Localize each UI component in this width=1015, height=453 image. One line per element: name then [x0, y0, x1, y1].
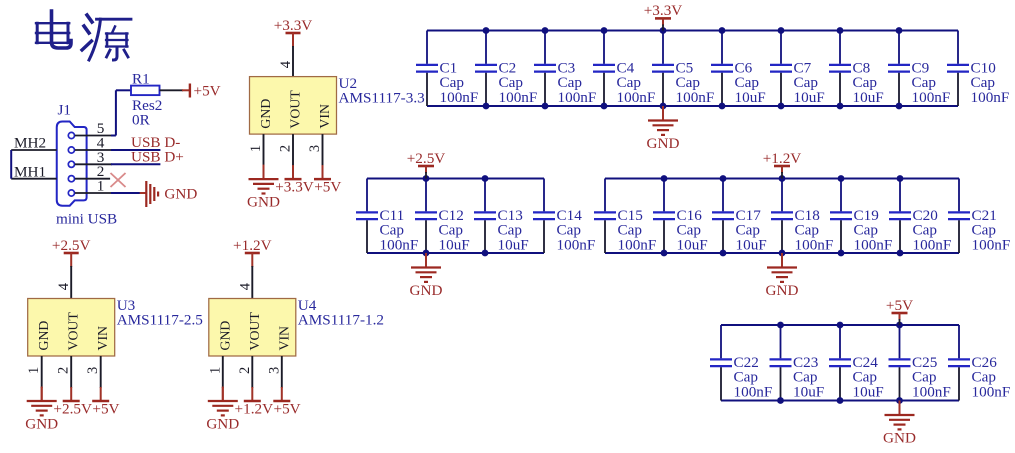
svg-text:100nF: 100nF: [912, 383, 951, 400]
wire +2.5V top rail: [367, 178, 544, 180]
svg-text:10uF: 10uF: [439, 236, 470, 253]
junction bottom rail at C8: [837, 103, 844, 110]
capacitor C5: [652, 31, 714, 107]
svg-text:100nF: 100nF: [971, 89, 1010, 106]
svg-text:4: 4: [278, 60, 294, 68]
svg-text:+1.2V: +1.2V: [235, 400, 274, 417]
svg-text:3: 3: [85, 367, 101, 374]
junction bottom rail at C17: [720, 250, 727, 257]
svg-text:AMS1117-3.3: AMS1117-3.3: [339, 89, 425, 106]
ground GND: [883, 401, 916, 447]
net label USB D-: [131, 134, 180, 151]
wire R1 to +5V: [160, 89, 184, 91]
svg-text:GND: GND: [25, 416, 58, 433]
junction top rail at C20: [897, 175, 904, 182]
junction bottom rail at C6: [719, 103, 726, 110]
svg-text:100nF: 100nF: [795, 236, 834, 253]
junction top rail at C25: [896, 322, 903, 329]
junction top rail at C8: [837, 27, 844, 34]
wire +5V top rail: [721, 324, 959, 326]
wire GND bottom rail: [605, 252, 959, 254]
svg-text:10uF: 10uF: [735, 89, 766, 106]
junction bottom rail at C12: [423, 250, 430, 257]
junction top rail at C7: [778, 27, 785, 34]
capacitor C22: [710, 325, 772, 401]
wire GND bottom rail: [721, 400, 959, 402]
resistor R1 Res2 0R: [131, 71, 162, 129]
svg-text:100nF: 100nF: [558, 89, 597, 106]
capacitor C2: [475, 31, 537, 107]
capacitor C11: [356, 179, 418, 254]
pin 2 wire U3: [56, 356, 72, 401]
junction top rail at C24: [837, 322, 844, 329]
capacitor C18: [771, 179, 833, 254]
capacitor C23: [770, 325, 825, 401]
svg-text:10uF: 10uF: [736, 236, 767, 253]
svg-text:+2.5V: +2.5V: [52, 237, 91, 254]
svg-text:10uF: 10uF: [853, 383, 884, 400]
svg-text:0R: 0R: [132, 112, 151, 129]
svg-text:2: 2: [237, 367, 253, 374]
svg-text:100nF: 100nF: [854, 236, 893, 253]
svg-text:100nF: 100nF: [912, 89, 951, 106]
junction top rail at C18: [779, 175, 786, 182]
pin 2 wire U4: [237, 356, 253, 401]
svg-text:GND: GND: [258, 99, 273, 129]
junction bottom rail at C4: [601, 103, 608, 110]
pin 1 wire U2: [248, 134, 264, 179]
pin MH2 J1: [11, 135, 57, 152]
junction top rail at C17: [720, 175, 727, 182]
svg-text:AMS1117-1.2: AMS1117-1.2: [298, 311, 384, 328]
svg-text:10uF: 10uF: [793, 383, 824, 400]
capacitor C9: [888, 31, 950, 107]
capacitor C13: [474, 179, 529, 254]
power port +3.3V pin 2 U2: [275, 178, 314, 195]
svg-text:+2.5V: +2.5V: [407, 150, 446, 167]
svg-text:1: 1: [26, 367, 42, 374]
svg-text:MH2: MH2: [14, 135, 46, 152]
junction bottom rail at C5: [660, 103, 667, 110]
pin 4 number U3: [56, 282, 72, 290]
svg-text:4: 4: [56, 282, 72, 290]
power port +5V pin 3 U4: [273, 400, 300, 417]
svg-text:VIN: VIN: [317, 104, 332, 129]
capacitor C8: [829, 31, 884, 107]
junction bottom rail at C13: [482, 250, 489, 257]
regulator U2 AMS1117-3.3: [250, 75, 425, 134]
svg-text:+5V: +5V: [194, 83, 221, 100]
svg-text:mini USB: mini USB: [56, 211, 117, 228]
junction bottom rail at C18: [779, 250, 786, 257]
capacitor C3: [534, 31, 596, 107]
svg-text:+2.5V: +2.5V: [53, 400, 92, 417]
pin 4 J1 net USB D-: [75, 135, 161, 152]
svg-text:100nF: 100nF: [499, 89, 538, 106]
pin 3 wire U3: [85, 356, 101, 401]
svg-text:100nF: 100nF: [617, 89, 656, 106]
capacitor C21: [948, 179, 1010, 254]
svg-text:1: 1: [97, 178, 105, 195]
svg-text:100nF: 100nF: [734, 383, 773, 400]
svg-text:10uF: 10uF: [794, 89, 825, 106]
svg-text:GND: GND: [410, 282, 443, 299]
svg-text:100nF: 100nF: [440, 89, 479, 106]
svg-text:2: 2: [56, 367, 72, 374]
capacitor C12: [415, 179, 470, 254]
power port +1.2V: [233, 237, 272, 299]
power port +5V: [886, 297, 913, 325]
pin 1 J1 wire to GND: [75, 178, 140, 195]
svg-text:+3.3V: +3.3V: [644, 2, 683, 19]
svg-text:+1.2V: +1.2V: [763, 150, 802, 167]
svg-text:100nF: 100nF: [380, 236, 419, 253]
junction top rail at C5: [660, 27, 667, 34]
wire +1.2V top rail: [605, 178, 959, 180]
svg-text:100nF: 100nF: [557, 236, 596, 253]
junction bottom rail at C2: [483, 103, 490, 110]
junction bottom rail at C16: [661, 250, 668, 257]
title text 电源 (Power): [36, 11, 131, 60]
junction bottom rail at C9: [896, 103, 903, 110]
junction top rail at C16: [661, 175, 668, 182]
junction bottom rail at C20: [897, 250, 904, 257]
svg-text:GND: GND: [766, 282, 799, 299]
ground GND: [410, 253, 443, 299]
svg-text:+3.3V: +3.3V: [275, 178, 314, 195]
capacitor C17: [712, 179, 767, 254]
junction top rail at C3: [542, 27, 549, 34]
capacitor C19: [830, 179, 892, 254]
pin 3 J1 net USB D+: [75, 149, 161, 166]
junction bottom rail at C25: [896, 397, 903, 404]
pin 3 wire U2: [307, 134, 323, 179]
svg-text:100nF: 100nF: [676, 89, 715, 106]
power port +2.5V pin 2 U3: [53, 400, 92, 417]
svg-text:4: 4: [237, 282, 253, 290]
svg-text:1: 1: [207, 367, 223, 374]
capacitor C26: [948, 325, 1010, 401]
svg-text:AMS1117-2.5: AMS1117-2.5: [117, 311, 203, 328]
svg-text:+5V: +5V: [886, 297, 913, 314]
svg-text:100nF: 100nF: [972, 236, 1011, 253]
wire +3.3V top rail: [427, 30, 958, 32]
power port +1.2V: [763, 150, 802, 179]
no-ERC cross on pin 2: [111, 173, 126, 187]
svg-text:GND: GND: [883, 430, 916, 447]
pin 5 J1 wire to R1: [75, 90, 131, 137]
svg-text:+5V: +5V: [92, 400, 119, 417]
junction top rail at C9: [896, 27, 903, 34]
svg-text:+5V: +5V: [274, 400, 301, 417]
svg-text:GND: GND: [217, 321, 232, 351]
junction top rail at C6: [719, 27, 726, 34]
power port +2.5V: [407, 150, 446, 179]
svg-text:GND: GND: [206, 416, 239, 433]
power port +1.2V pin 2 U4: [235, 400, 274, 417]
junction top rail at C2: [483, 27, 490, 34]
capacitor C25: [889, 325, 951, 401]
junction top rail at C4: [601, 27, 608, 34]
svg-text:USB D+: USB D+: [131, 148, 184, 165]
svg-text:1: 1: [248, 145, 264, 152]
power port +5V at R1: [182, 83, 221, 100]
capacitor C1: [416, 31, 478, 107]
junction top rail at C19: [838, 175, 845, 182]
svg-text:10uF: 10uF: [498, 236, 529, 253]
svg-text:MH1: MH1: [14, 164, 46, 181]
junction bottom rail at C7: [778, 103, 785, 110]
svg-text:VOUT: VOUT: [288, 90, 303, 129]
svg-text:+1.2V: +1.2V: [233, 237, 272, 254]
junction bottom rail at C23: [777, 397, 784, 404]
junction top rail at C12: [423, 175, 430, 182]
svg-text:GND: GND: [247, 194, 280, 211]
junction top rail at C13: [482, 175, 489, 182]
capacitor C15: [594, 179, 656, 254]
regulator U4 AMS1117-1.2: [209, 297, 384, 356]
power ground symbol at J1 pin 1: [140, 181, 198, 207]
net label USB D+: [131, 148, 184, 165]
svg-text:VIN: VIN: [95, 326, 110, 351]
ground GND: [647, 106, 680, 152]
wire GND bottom rail: [427, 105, 958, 107]
svg-text:3: 3: [266, 367, 282, 374]
pin 1 wire U3: [26, 356, 42, 401]
ground GND U2 pin 1: [247, 165, 280, 211]
capacitor C20: [889, 179, 951, 254]
junction bottom rail at C19: [838, 250, 845, 257]
pin 1 wire U4: [207, 356, 223, 401]
pin 2 wire U2: [278, 134, 294, 179]
junction bottom rail at C24: [837, 397, 844, 404]
power port +5V pin 3 U2: [314, 178, 341, 195]
svg-text:GND: GND: [36, 321, 51, 351]
svg-text:GND: GND: [164, 186, 197, 203]
pin 3 wire U4: [266, 356, 282, 401]
ground GND: [766, 253, 799, 299]
power port +3.3V: [644, 2, 683, 30]
capacitor C4: [593, 31, 655, 107]
capacitor C6: [711, 31, 766, 107]
svg-text:2: 2: [278, 145, 294, 152]
svg-text:100nF: 100nF: [972, 383, 1011, 400]
svg-text:R1: R1: [132, 71, 150, 88]
svg-text:VOUT: VOUT: [247, 312, 262, 351]
svg-text:+5V: +5V: [314, 178, 341, 195]
connector J1 mini USB: [56, 102, 117, 228]
svg-text:VOUT: VOUT: [66, 312, 81, 351]
power port +2.5V: [52, 237, 91, 299]
pin 4 number U2: [278, 60, 294, 68]
junction bottom rail at C3: [542, 103, 549, 110]
svg-text:3: 3: [307, 145, 323, 152]
power port +3.3V: [274, 17, 313, 77]
capacitor C7: [770, 31, 825, 107]
svg-text:100nF: 100nF: [618, 236, 657, 253]
svg-text:10uF: 10uF: [853, 89, 884, 106]
capacitor C16: [653, 179, 708, 254]
svg-text:VIN: VIN: [276, 326, 291, 351]
svg-text:GND: GND: [647, 135, 680, 152]
power port +5V pin 3 U3: [92, 400, 119, 417]
capacitor C24: [829, 325, 884, 401]
svg-text:10uF: 10uF: [677, 236, 708, 253]
regulator U3 AMS1117-2.5: [28, 297, 203, 356]
capacitor C10: [947, 31, 1009, 107]
junction top rail at C23: [777, 322, 784, 329]
svg-text:+3.3V: +3.3V: [274, 17, 313, 34]
wire joining MH1 MH2: [10, 150, 12, 179]
svg-text:J1: J1: [58, 102, 72, 119]
wire GND bottom rail: [367, 252, 544, 254]
ground GND U4 pin 1: [206, 387, 239, 433]
ground GND U3 pin 1: [25, 387, 58, 433]
capacitor C14: [533, 179, 595, 254]
pin 2 J1 no connect: [75, 163, 110, 180]
pin MH1 J1: [11, 164, 57, 181]
pin 4 number U4: [237, 282, 253, 290]
svg-text:100nF: 100nF: [913, 236, 952, 253]
